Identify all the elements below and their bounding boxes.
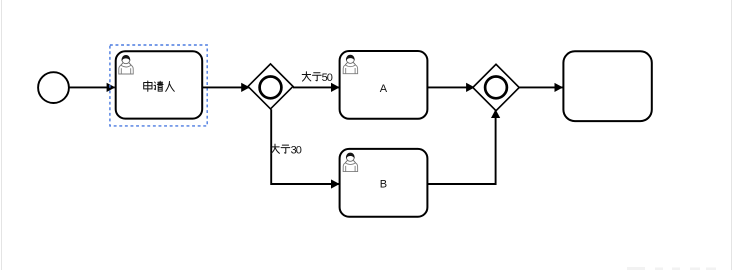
label 申请人 (vector glyphs) xyxy=(144,81,175,91)
canvas right border xyxy=(731,0,733,270)
user icon task B xyxy=(343,153,358,172)
canvas left border xyxy=(1,0,3,270)
gateway1 inner circle xyxy=(260,77,282,99)
wire taskB -> gateway2 (right then up) xyxy=(427,110,495,184)
svg-text:A: A xyxy=(380,83,388,95)
wire task1->gateway1 xyxy=(202,86,249,88)
faint bottom-edge marks xyxy=(627,267,716,270)
gateway2 inner circle xyxy=(485,77,507,99)
大 xyxy=(302,72,311,81)
label 大于30 xyxy=(271,144,290,153)
end box xyxy=(563,51,651,121)
gateway1 diamond xyxy=(248,64,293,109)
申 xyxy=(144,81,152,91)
wire gateway1->taskA xyxy=(293,86,339,88)
于 xyxy=(281,145,290,153)
label 大于50 xyxy=(302,72,321,81)
selection dashed rect around task1 xyxy=(110,45,207,126)
wire taskA->gateway2 xyxy=(427,86,474,88)
wire gateway1 bottom -> taskB (down then right) xyxy=(271,109,339,184)
user icon task1 xyxy=(119,55,134,74)
gateway2 diamond xyxy=(473,64,519,110)
start event circle xyxy=(38,72,69,103)
svg-text:B: B xyxy=(380,179,387,191)
wire start->task1 xyxy=(69,86,115,88)
task B box xyxy=(340,149,428,217)
wire gateway2->end xyxy=(519,86,562,88)
人 xyxy=(166,82,175,92)
大 xyxy=(271,144,280,153)
svg-text:30: 30 xyxy=(291,144,302,156)
task A box xyxy=(340,51,428,119)
svg-text:50: 50 xyxy=(322,72,333,84)
task 申请人 box xyxy=(116,51,203,118)
于 xyxy=(313,73,322,81)
user icon task A xyxy=(343,55,358,74)
请 xyxy=(154,81,163,91)
